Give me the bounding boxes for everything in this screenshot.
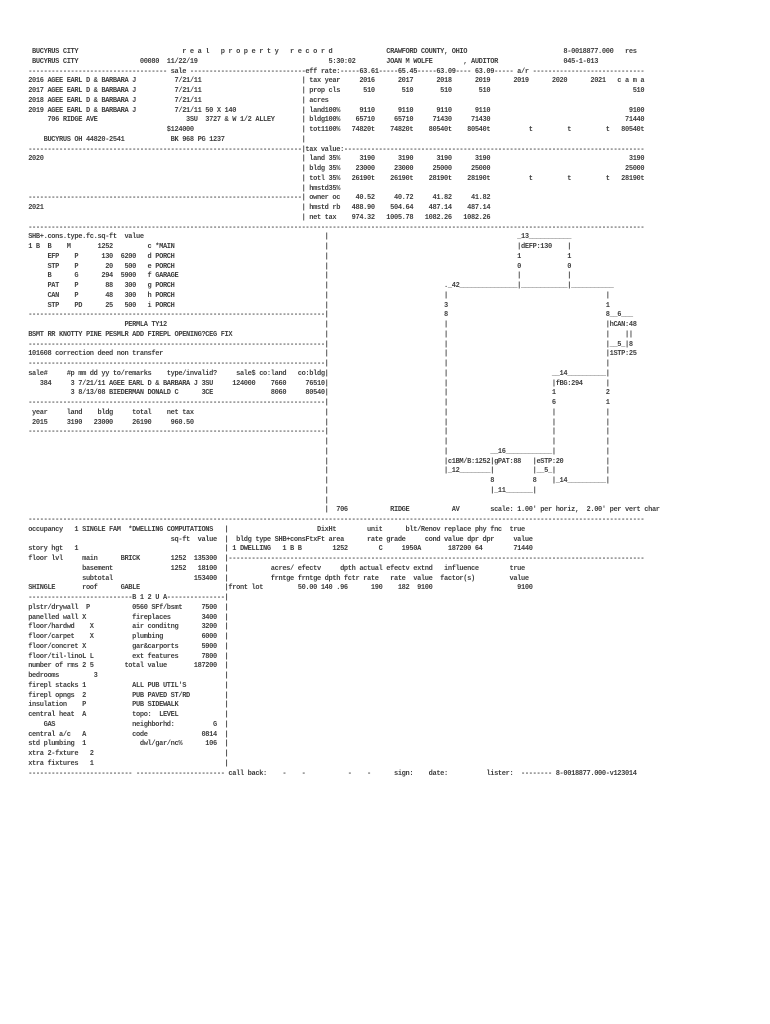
property record card document xyxy=(28,48,659,779)
